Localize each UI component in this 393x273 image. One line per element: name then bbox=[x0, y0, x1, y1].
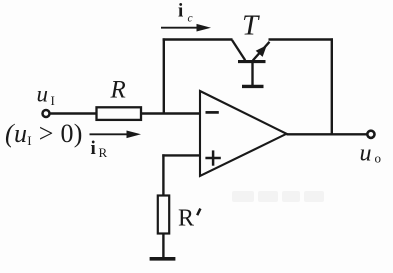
op-amp plus sign bbox=[205, 150, 220, 165]
wire top right segment bbox=[269, 38, 334, 40]
resistor R1 (R) bbox=[97, 107, 142, 120]
svg-text:R: R bbox=[178, 206, 194, 232]
svg-text:I: I bbox=[51, 93, 55, 108]
resistor R2 (R') bbox=[158, 196, 169, 234]
collector lead bbox=[232, 40, 245, 60]
svg-text:(uI > 0): (uI > 0) bbox=[5, 119, 83, 148]
svg-text:u: u bbox=[360, 141, 372, 167]
wire input to resistor R bbox=[50, 112, 97, 114]
emitter lead bbox=[253, 42, 270, 61]
svg-text:R: R bbox=[110, 77, 126, 104]
svg-text:o: o bbox=[375, 151, 382, 166]
svg-text:i: i bbox=[91, 138, 96, 159]
current arrow i_R bbox=[90, 131, 142, 139]
ground (transistor base) bbox=[242, 85, 264, 88]
op-amp minus sign bbox=[206, 111, 219, 114]
svg-text:T: T bbox=[242, 10, 260, 42]
svg-text:u: u bbox=[37, 82, 49, 107]
current arrow i_c bbox=[161, 24, 211, 32]
faint watermark bbox=[232, 191, 324, 202]
wire right vertical to output bbox=[331, 38, 333, 134]
wire op-amp output bbox=[287, 133, 367, 135]
base lead down bbox=[251, 62, 253, 86]
svg-text:i: i bbox=[178, 1, 183, 22]
wire resistor to inverting input bbox=[141, 112, 200, 114]
emitter arrowhead bbox=[256, 45, 267, 57]
wire feedback vertical left bbox=[163, 38, 165, 113]
output terminal u_o bbox=[367, 131, 374, 138]
svg-text:R: R bbox=[99, 145, 108, 160]
svg-text:c: c bbox=[188, 13, 193, 25]
wire top left segment bbox=[163, 38, 233, 40]
op-amp U1 bbox=[200, 91, 287, 176]
ground (bottom) bbox=[150, 257, 176, 261]
wire R' to ground bbox=[162, 234, 164, 259]
base bar bbox=[238, 60, 266, 63]
wire noninverting vertical to R' bbox=[162, 154, 164, 195]
input terminal u_I bbox=[43, 110, 50, 117]
transistor T bbox=[232, 40, 270, 85]
wire noninverting input horizontal bbox=[162, 154, 200, 156]
